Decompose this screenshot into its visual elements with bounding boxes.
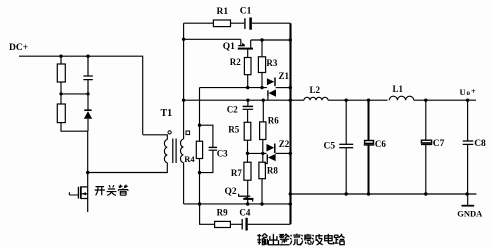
- diode Z1 upper: [267, 78, 274, 85]
- wire top RC snubber rail: [184, 22, 291, 24]
- wire C4 to rail: [248, 223, 291, 225]
- resistor R-left-bottom: [57, 104, 65, 123]
- wire secondary bottom lead: [183, 163, 185, 204]
- wire R7 bottom lead / Q2 drain: [247, 180, 249, 199]
- svg-text:Q2: Q2: [225, 187, 237, 197]
- node junction dot: [86, 92, 89, 95]
- node junction dot left resistor: [59, 55, 62, 58]
- wire Q1 gate wire: [184, 38, 241, 40]
- resistor R1: [213, 20, 230, 27]
- diode Z1 lower: [267, 90, 269, 96]
- capacitor C5: [345, 100, 347, 144]
- node junction dot Z1/rail: [289, 86, 292, 89]
- svg-text:C5: C5: [324, 141, 336, 151]
- resistor R-left-top: [57, 64, 65, 82]
- transformer T1 core: [173, 139, 176, 164]
- node junction dot R4/C3: [198, 171, 201, 174]
- capacitor C1: [244, 18, 246, 29]
- wire L1 to output: [414, 99, 476, 101]
- wire bottom wire of control block: [184, 203, 291, 205]
- transistor Q1: [240, 39, 242, 45]
- wire drain to transformer primary bottom: [88, 163, 168, 173]
- wire: [87, 119, 89, 131]
- svg-text:C7: C7: [433, 139, 445, 149]
- capacitor left-snubber: [83, 56, 92, 94]
- svg-text:R3: R3: [266, 58, 277, 68]
- wire R4 bottom lead: [199, 159, 201, 205]
- transformer T1 secondary polarity square: [186, 131, 190, 135]
- wire output top wire to L2: [290, 99, 304, 101]
- svg-text:C1: C1: [240, 7, 252, 17]
- transformer T1 primary polarity dot: [168, 131, 171, 134]
- resistor R4: [196, 141, 202, 158]
- node junction dot rail top: [289, 38, 292, 41]
- node junction dot rail/ground: [289, 192, 292, 195]
- node junction dot R6 tap: [262, 99, 265, 102]
- resistor R8: [259, 162, 266, 179]
- svg-text:DC+: DC+: [9, 43, 28, 53]
- wire R6 top lead: [262, 100, 264, 122]
- node junction dot R2/Z1: [246, 86, 249, 89]
- wire Q1 drain to rail: [251, 39, 291, 41]
- node junction dot secondary/output wire: [182, 99, 185, 102]
- node junction dot bottom/rail: [289, 202, 292, 205]
- transistor Q2: [238, 194, 240, 196]
- node junction dot drain: [86, 171, 89, 174]
- node junction dot R5/R7/Z2-wire: [246, 152, 249, 155]
- capacitor C2: [247, 100, 249, 106]
- text 输出整流滤波电路 caption: [257, 234, 344, 245]
- node junction dot R8 bottom: [260, 202, 263, 205]
- wire R9 to C4: [230, 223, 241, 225]
- svg-text:C4: C4: [239, 208, 250, 218]
- resistor R5: [244, 122, 251, 140]
- wire R3 top lead: [261, 40, 263, 57]
- svg-text:C6: C6: [375, 139, 386, 149]
- diode Z2 lower: [266, 154, 268, 160]
- node junction dot: [59, 92, 62, 95]
- resistor R7: [244, 162, 251, 180]
- node junction dot Z2/rail: [289, 152, 292, 155]
- wire: [61, 123, 88, 132]
- svg-text:L1: L1: [393, 84, 404, 94]
- wire R6 bottom lead: [262, 140, 264, 154]
- wire right rail of control block: [289, 23, 291, 224]
- wire R8 bottom lead: [261, 179, 263, 204]
- node junction dot R9 branch: [198, 202, 201, 205]
- svg-text:R9: R9: [217, 208, 228, 218]
- wire Z2 cathode to rail: [276, 152, 291, 154]
- wire L2 to L1: [328, 99, 388, 101]
- wire R9 branch: [200, 204, 215, 224]
- svg-text:L2: L2: [310, 85, 321, 95]
- node junction dot C5 bottom: [345, 192, 348, 195]
- diode D-left: [87, 94, 89, 110]
- node junction dot output-wire/rail: [289, 99, 292, 102]
- transformer T1 secondary winding: [180, 139, 183, 162]
- node junction dot C2 tap: [246, 99, 249, 102]
- wire DC+ top rail: [19, 56, 143, 134]
- transformer T1 primary winding: [164, 140, 167, 163]
- wire R2 bottom lead: [247, 75, 249, 88]
- node junction dot C3 tap: [198, 124, 201, 127]
- resistor R2: [244, 58, 251, 75]
- svg-text:U: U: [460, 87, 466, 97]
- resistor R9: [215, 221, 231, 227]
- wire R4/C3 column top corner: [199, 88, 201, 142]
- svg-text:R6: R6: [268, 115, 279, 125]
- wire R5 bottom lead: [247, 140, 249, 162]
- svg-text:C8: C8: [474, 139, 486, 149]
- capacitor C7 (electrolytic): [425, 100, 427, 140]
- wire secondary output wire (y=100): [184, 99, 291, 101]
- node junction dot C7 bottom: [424, 192, 427, 195]
- wire ground bus: [290, 193, 476, 195]
- svg-text:R5: R5: [228, 124, 239, 134]
- svg-text:R8: R8: [267, 165, 278, 175]
- svg-text:R1: R1: [217, 7, 229, 17]
- capacitor C8: [467, 100, 469, 141]
- svg-text:o: o: [467, 89, 471, 97]
- node junction dot R3/Z1: [260, 86, 263, 89]
- diode Z2 upper: [267, 144, 275, 152]
- svg-text:R2: R2: [230, 57, 241, 67]
- svg-text:C2: C2: [227, 105, 238, 115]
- node junction dot C6 top: [367, 99, 370, 102]
- svg-text:GNDA: GNDA: [457, 209, 483, 219]
- node junction dot C8 top: [466, 99, 469, 102]
- wire Z1 anode wire: [200, 87, 267, 89]
- inductor L2: [304, 97, 328, 100]
- node junction dot C5 top: [345, 99, 348, 102]
- resistor R6: [260, 122, 266, 140]
- ground GNDA stub: [467, 194, 469, 205]
- capacitor C6 (electrolytic): [368, 100, 370, 140]
- wire: [60, 56, 62, 64]
- svg-text:T1: T1: [161, 108, 173, 119]
- svg-text:+: +: [471, 86, 476, 96]
- svg-text:Q1: Q1: [223, 42, 235, 52]
- wire Z2 anode wire: [248, 152, 267, 154]
- svg-text:C3: C3: [217, 149, 228, 159]
- node junction dot R6/R8/Z2-wire: [261, 152, 264, 155]
- node junction dot secondary/gate wire: [182, 38, 185, 41]
- wire Q2 source: [247, 199, 249, 204]
- svg-text:R4: R4: [184, 154, 195, 164]
- capacitor C4: [241, 219, 243, 230]
- resistor R3: [258, 57, 265, 73]
- node junction dot C6 bottom: [367, 192, 370, 195]
- svg-text:R7: R7: [231, 168, 242, 178]
- node junction dot C7 top: [424, 99, 427, 102]
- node junction dot R3 tap: [260, 38, 263, 41]
- wire secondary top lead (left edge of control block): [183, 23, 185, 139]
- wire Q1 source to R2: [247, 50, 249, 58]
- wire R8 top lead: [262, 153, 264, 162]
- svg-text:Z1: Z1: [279, 71, 290, 81]
- inductor L1: [389, 96, 414, 100]
- wire primary top lead: [143, 135, 168, 140]
- wire: [61, 82, 88, 104]
- wire MOSFET drain column: [87, 131, 89, 172]
- node junction dot Q2 source: [246, 202, 249, 205]
- transistor Q-switch (开关管 MOSFET): [87, 173, 89, 213]
- svg-text:Z2: Z2: [279, 139, 290, 149]
- capacitor C3: [200, 125, 213, 147]
- node junction dot C8/GNDA: [465, 192, 468, 195]
- text 开关管 (switch tube): [95, 185, 128, 196]
- node junction dot left capacitor: [86, 55, 89, 58]
- wire Z1 cathode to rail: [276, 87, 291, 89]
- wire R3 bottom lead: [261, 73, 263, 88]
